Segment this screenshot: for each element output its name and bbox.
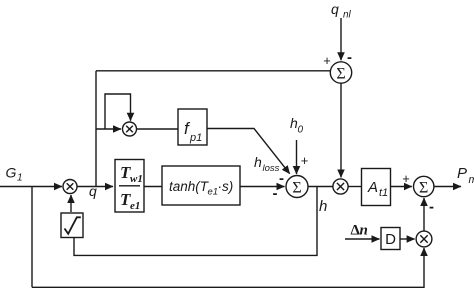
wire q branch up to top line: [95, 71, 97, 187]
wire gate branch down (left outer feedback, vertical): [31, 187, 33, 288]
multiplier X1 (G * sqrt(h)): [63, 180, 77, 194]
wire bottom feedback line to X4: [32, 248, 424, 287]
summer S1 (top): [330, 62, 351, 83]
multiplier X2 (q squared): [123, 122, 137, 136]
wire S3 output to Pm: [434, 186, 461, 188]
node Pm label: [457, 165, 474, 186]
svg-text:h: h: [254, 154, 262, 170]
wire q_nl into summer S1: [340, 18, 342, 60]
multiplier X3: [333, 179, 348, 194]
block tanh(Te1 s): [162, 166, 240, 205]
node sign minus at S1 right: [347, 49, 352, 66]
wire G1 input to multiplier X1: [0, 186, 62, 188]
svg-text:·s): ·s): [218, 179, 234, 194]
svg-text:e1: e1: [130, 200, 140, 212]
svg-text:m: m: [469, 174, 474, 186]
svg-text:h: h: [319, 198, 327, 215]
svg-text:q: q: [331, 1, 339, 17]
multiplier X4 (damping): [416, 231, 432, 247]
svg-text:-: -: [347, 49, 352, 66]
node delta-n label: [351, 223, 368, 239]
wire sqrt output up to X1: [70, 195, 72, 212]
node G1 input label: [6, 165, 23, 184]
summer S2: [286, 176, 308, 198]
node h_loss label: [254, 154, 280, 174]
wire S2 output to X3: [308, 186, 333, 188]
svg-text:-: -: [279, 170, 284, 187]
node sign minus at S2 lower-left: [273, 185, 278, 202]
node h label: [319, 198, 327, 215]
svg-text:D: D: [385, 231, 396, 248]
block sqrt: [61, 213, 83, 238]
node sign plus at S2 top: [301, 153, 309, 168]
wire At1 to summer S3: [391, 186, 412, 188]
wire X3 to At1 block: [348, 186, 361, 188]
svg-text:nl: nl: [343, 10, 352, 21]
wire X2 to block fp1: [137, 128, 179, 130]
svg-text:w1: w1: [130, 173, 143, 185]
svg-text:tanh(T: tanh(T: [169, 179, 210, 194]
svg-text:0: 0: [298, 125, 304, 136]
svg-text:A: A: [367, 179, 378, 196]
node h0 label: [290, 115, 304, 136]
svg-text:-: -: [429, 199, 434, 216]
svg-text:+: +: [301, 153, 309, 168]
svg-text:t1: t1: [379, 187, 388, 199]
wire X4 up into S3 bottom: [423, 198, 425, 231]
block fp1: [178, 109, 207, 145]
wire q branch into multiplier X2: [96, 128, 121, 130]
block Tw1/Te1: [115, 160, 144, 213]
node sign plus at S1 left: [323, 53, 331, 68]
node sign plus at S3 left: [402, 171, 410, 186]
svg-text:p1: p1: [189, 132, 202, 144]
svg-text:+: +: [402, 171, 410, 186]
svg-text:Σ: Σ: [419, 180, 428, 197]
svg-text:G: G: [6, 165, 17, 181]
node q_nl label: [331, 1, 352, 21]
wire X1 to Tw1/Te1 block: [77, 186, 113, 188]
svg-text:e1: e1: [208, 187, 219, 198]
svg-text:Σ: Σ: [292, 180, 301, 197]
svg-text:P: P: [457, 165, 467, 182]
summer S3 (output): [414, 176, 434, 196]
svg-text:Σ: Σ: [336, 66, 345, 83]
node sign minus at S2 upper-left: [279, 170, 284, 187]
svg-text:+: +: [323, 53, 331, 68]
wire S1 output down to multiplier X3: [340, 83, 342, 177]
wire Tw1/Te1 to tanh block: [144, 186, 162, 188]
svg-text:1: 1: [17, 173, 23, 184]
wire tanh output to summer S2: [240, 186, 285, 188]
wire X2 self-loop: [105, 94, 131, 129]
wire fp1 output to summer S2 (h_loss, diagonal): [207, 129, 290, 174]
block D: [381, 228, 400, 250]
wire D to multiplier X4: [400, 238, 415, 240]
svg-text:-: -: [273, 185, 278, 202]
svg-text:n: n: [360, 223, 368, 239]
wire h branch down and left to sqrt: [74, 187, 317, 256]
node q label: [89, 183, 97, 199]
wire h0 into summer S2 top: [296, 140, 298, 174]
wire top line to summer S1: [96, 70, 330, 72]
block At1: [362, 169, 391, 206]
node sign minus at S3 bottom: [429, 199, 434, 216]
svg-text:loss: loss: [263, 163, 280, 174]
wire delta-n into D block: [345, 238, 380, 240]
